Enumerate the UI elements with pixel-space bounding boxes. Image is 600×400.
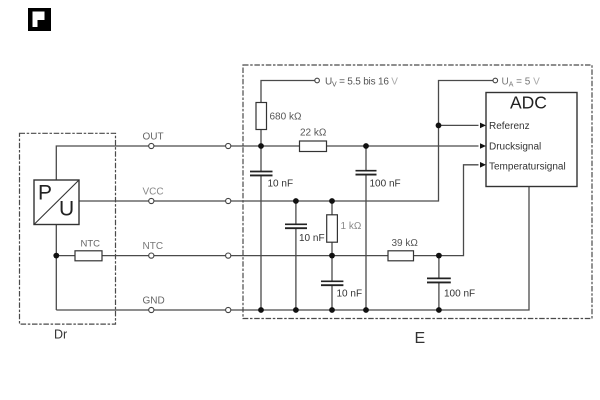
node junction GND/C3 [293,307,299,313]
wire NTC net (sensor bottom, down to GND and right through NTC) [56,225,439,311]
svg-text:UA = 5 V: UA = 5 V [502,77,541,89]
arrowhead Referenz [480,123,486,129]
terminal circle NTC right [226,253,231,258]
terminal circle GND right [226,307,231,312]
node junction temperature [436,253,442,259]
svg-text:1 kΩ: 1 kΩ [341,221,362,232]
svg-text:UV = 5.5 bis 16 V: UV = 5.5 bis 16 V [325,77,398,89]
terminal circle VCC left [149,198,154,203]
svg-text:P: P [38,182,52,205]
node junction VCC/1k [329,198,335,204]
svg-text:E: E [415,330,426,347]
resistor 39k [388,238,418,261]
electronics box E (dashed) [243,65,592,319]
node junction GND/C5 [436,307,442,313]
svg-text:U: U [59,198,74,221]
capacitor C5 100nF [427,278,475,299]
wire VCC net (sensor right to U_A corner) [79,81,493,202]
label E [415,330,426,347]
resistor NTC [75,239,102,261]
svg-text:10 nF: 10 nF [268,179,294,190]
svg-text:GND: GND [143,296,165,307]
op-amp block ADC U2 [486,93,577,187]
label U_A = 5 V [502,77,541,89]
wire capacitor column C1 [260,146,262,310]
node junction NTC sensor [53,253,59,259]
wire capacitor column C2 [365,146,367,310]
svg-text:OUT: OUT [143,132,164,143]
label GND [143,296,165,307]
svg-text:Temperatursignal: Temperatursignal [489,162,566,173]
capacitor C1 10nF [250,172,293,190]
svg-text:NTC: NTC [143,241,164,252]
terminal circle NTC left [149,253,154,258]
label NTC [143,241,164,252]
svg-text:VCC: VCC [143,187,164,198]
node junction GND/C2 [363,307,369,313]
arrowhead Drucksignal [480,143,486,149]
terminal circle U_A [493,78,498,83]
wire GND rail [56,187,529,311]
wire Referenz stub (VCC vertical to ADC Referenz) [439,124,479,126]
svg-text:NTC: NTC [81,239,101,250]
wire resistor 1k column [331,201,333,256]
svg-text:Drucksignal: Drucksignal [489,142,541,153]
resistor 1k [327,215,362,242]
terminal circle OUT right [226,143,231,148]
terminal circle VCC right [226,198,231,203]
terminal circle U_V [315,78,320,83]
svg-text:ADC: ADC [510,93,547,113]
sensor box Dr (dashed) [20,133,116,324]
label OUT [143,132,164,143]
capacitor C4 10nF [321,281,362,299]
wire U_V supply rail [261,81,315,103]
sensor element P/U [34,180,79,225]
svg-text:39 kΩ: 39 kΩ [392,238,419,249]
node junction NTC/1k [329,253,335,259]
svg-text:Dr: Dr [54,328,67,342]
svg-text:10 nF: 10 nF [299,233,325,244]
svg-text:100 nF: 100 nF [370,179,401,190]
wire capacitor column C4 [331,256,333,310]
svg-text:Referenz: Referenz [489,121,530,132]
wire temperature signal (node to ADC Temperatursignal) [439,165,479,256]
node junction OUT/100nF [363,143,369,149]
capacitor C2 100nF [356,171,401,190]
node junction OUT/680k [258,143,264,149]
svg-text:22 kΩ: 22 kΩ [300,128,327,139]
svg-text:10 nF: 10 nF [337,289,363,300]
label VCC [143,187,164,198]
capacitor C3 10nF [285,224,325,244]
resistor 22k [300,128,327,152]
terminal circle OUT left [149,143,154,148]
svg-text:100 nF: 100 nF [444,289,475,300]
wire capacitor column C5 [438,256,440,310]
wire OUT net (sensor top to ADC Drucksignal) [56,146,478,180]
node junction GND/C1 [258,307,264,313]
resistor 680k [256,103,302,130]
wire 680k bottom stub [260,130,262,147]
node junction VCC/10nF [293,198,299,204]
label Dr [54,328,67,342]
svg-text:680 kΩ: 680 kΩ [270,112,302,123]
arrowhead Temperatursignal [480,162,486,168]
wire capacitor column C3 [295,201,297,310]
label U_V = 5.5 bis 16 V [325,77,398,89]
node junction GND/C4 [329,307,335,313]
node junction Referenz [436,123,442,129]
terminal circle GND left [149,307,154,312]
